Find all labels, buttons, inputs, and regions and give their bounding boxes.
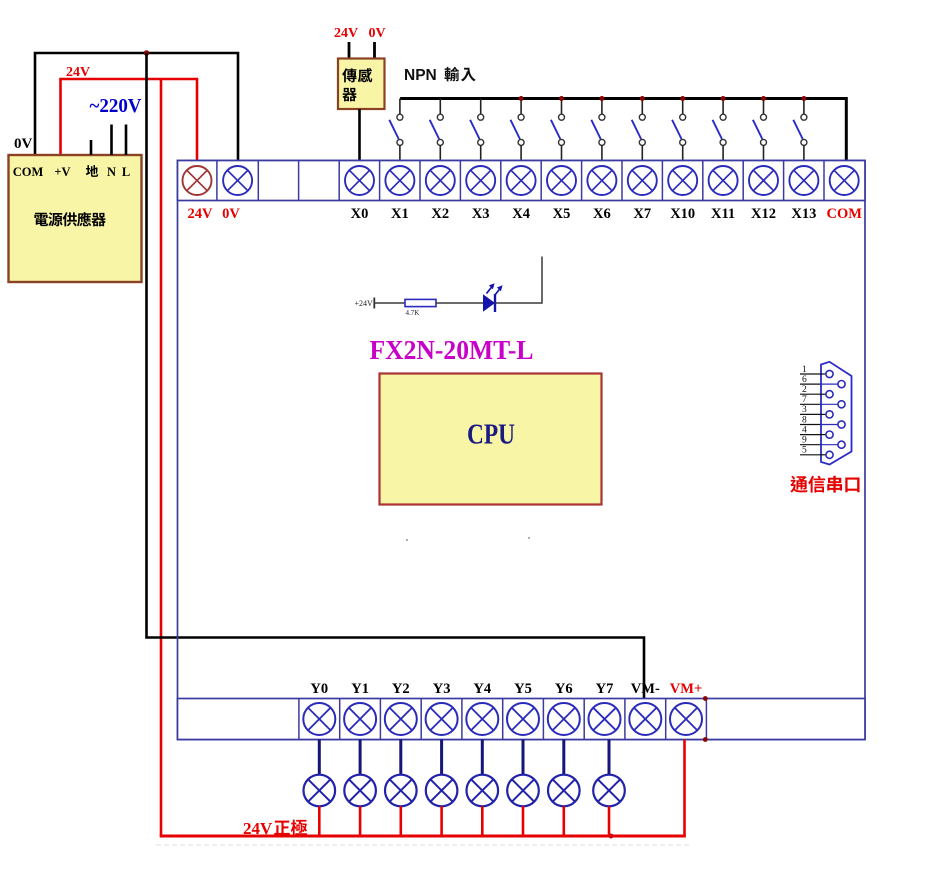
bus wire COM input common line (400, 99, 846, 162)
pin 24V of sensor (348, 42, 351, 59)
svg-text:N: N (107, 165, 116, 179)
svg-text:Y1: Y1 (351, 681, 369, 697)
junction on bus above X11 (721, 96, 726, 101)
load lamp on output Y2 (385, 740, 417, 838)
svg-text:X12: X12 (751, 206, 776, 222)
terminal VM- (629, 703, 661, 735)
output terminal block cell dividers (299, 699, 707, 740)
wire VM+ to 24V rail (683, 740, 686, 838)
terminal X6 (587, 166, 616, 195)
svg-text:~220V: ~220V (90, 95, 143, 117)
output terminal block frame (178, 699, 866, 740)
load lamp on output Y3 (426, 740, 458, 838)
junction on bus above X13 (801, 96, 806, 101)
terminal Y3 (426, 703, 458, 735)
faint scan artifact line below rail (156, 844, 692, 846)
resistor 4.7K (405, 299, 436, 306)
svg-text:X11: X11 (711, 206, 735, 222)
switch input X3 (470, 99, 484, 162)
terminal Y0 (303, 703, 335, 735)
svg-text:24V: 24V (66, 65, 90, 80)
label 器 line2 of sensor (342, 88, 356, 101)
pin N of power supply (110, 125, 113, 156)
power supply box (9, 155, 142, 282)
junction on bus above X5 (559, 96, 564, 101)
terminal X5 (547, 166, 576, 195)
svg-text:Y7: Y7 (596, 681, 614, 697)
svg-text:0V: 0V (222, 206, 240, 222)
svg-text:0V: 0V (14, 136, 33, 152)
switch input X1 (389, 99, 403, 162)
terminal COM (830, 166, 859, 195)
terminal Y7 (589, 703, 621, 735)
switch input X6 (591, 99, 605, 162)
svg-text:COM: COM (13, 165, 44, 179)
terminal 0V (223, 166, 252, 195)
svg-text:NPN: NPN (404, 67, 437, 84)
svg-text:8: 8 (802, 415, 807, 425)
terminal X10 (668, 166, 697, 195)
terminal Y2 (385, 703, 417, 735)
svg-text:+24V: +24V (355, 299, 374, 308)
svg-text:X6: X6 (593, 206, 611, 222)
CPU box (380, 374, 602, 505)
svg-text:1: 1 (802, 365, 807, 375)
speck left below CPU (406, 539, 408, 541)
DB9 pin 7 (800, 395, 845, 408)
svg-text:FX2N-20MT-L: FX2N-20MT-L (370, 335, 534, 365)
svg-text:X4: X4 (512, 206, 530, 222)
DB9 pin 6 (800, 375, 845, 388)
load lamp on output Y4 (467, 740, 499, 838)
junction on bus above X7 (640, 96, 645, 101)
terminal X11 (709, 166, 738, 195)
switch input X10 (672, 99, 686, 162)
wire resistor to LED (436, 302, 483, 304)
terminal X3 (466, 166, 495, 195)
svg-text:9: 9 (802, 436, 807, 446)
terminal VM+ (670, 703, 702, 735)
svg-text:L: L (122, 165, 130, 179)
junction on bus above X12 (761, 96, 766, 101)
DB9 pin 2 (800, 385, 833, 398)
svg-text:COM: COM (826, 206, 862, 222)
svg-text:X1: X1 (391, 206, 409, 222)
load lamp on output Y1 (344, 740, 376, 838)
svg-text:24V: 24V (243, 819, 273, 838)
svg-text:Y6: Y6 (555, 681, 573, 697)
speck right below CPU (528, 537, 530, 539)
terminal X0 (345, 166, 374, 195)
svg-text:VM-: VM- (631, 681, 660, 697)
svg-text:X13: X13 (791, 206, 816, 222)
terminal Y5 (507, 703, 539, 735)
wire 24V red branch down left side to bottom rail (160, 79, 163, 837)
sensor box (338, 59, 385, 110)
load lamp on output Y7 (593, 740, 625, 838)
svg-text:5: 5 (802, 446, 807, 456)
switch input X12 (753, 99, 767, 162)
junction on bus above X10 (680, 96, 685, 101)
DB9 pin 1 (800, 365, 833, 378)
switch input X7 (632, 99, 646, 162)
svg-text:Y0: Y0 (310, 681, 328, 697)
input terminal block cell dividers (217, 161, 824, 201)
switch input X4 (511, 99, 525, 162)
svg-text:Y3: Y3 (433, 681, 451, 697)
switch input X2 (430, 99, 444, 162)
junction on 24V rail at Y7 load (609, 834, 614, 839)
label 電源供應器 power supply name (34, 213, 48, 226)
terminal X4 (507, 166, 536, 195)
junction on bus above X6 (599, 96, 604, 101)
label 通信串口 serial port (790, 476, 807, 493)
svg-text:6: 6 (802, 375, 807, 385)
terminal 24V (183, 166, 212, 195)
terminal X13 (789, 166, 818, 195)
svg-text:X0: X0 (351, 206, 369, 222)
pin 地 of power supply (90, 140, 93, 155)
terminal X12 (749, 166, 778, 195)
svg-text:X3: X3 (472, 206, 490, 222)
wire 24V red from power supply +V to 24V terminal (61, 79, 198, 167)
DB9 pin 5 (800, 446, 833, 459)
switch input X11 (713, 99, 727, 162)
junction dot bottom right of VM+ cell (703, 737, 708, 742)
wire sensor output to X0 terminal (358, 109, 361, 161)
svg-text:X10: X10 (670, 206, 695, 222)
svg-text:2: 2 (802, 385, 807, 395)
svg-text:Y2: Y2 (392, 681, 410, 697)
LED D1 (483, 283, 503, 312)
DB9 pin 3 (800, 405, 833, 418)
svg-text:24V: 24V (188, 206, 214, 222)
junction node on 0V wire (144, 50, 150, 56)
terminal X7 (628, 166, 657, 195)
junction on bus above X4 (519, 96, 524, 101)
load lamp on output Y6 (548, 740, 580, 838)
node +24V tick (373, 298, 375, 309)
DB9 connector shell (821, 362, 852, 465)
svg-text:Y5: Y5 (514, 681, 532, 697)
PLC body outline FX2N (178, 161, 866, 740)
svg-text:0V: 0V (368, 26, 385, 41)
wire LED up to input circuit (495, 257, 542, 304)
svg-text:X5: X5 (553, 206, 571, 222)
DB9 pin 4 (800, 425, 833, 438)
pin L of power supply (125, 125, 128, 156)
svg-text:24V: 24V (334, 26, 358, 41)
switch input X5 (551, 99, 565, 162)
terminal Y1 (344, 703, 376, 735)
terminal Y6 (548, 703, 580, 735)
svg-text:4.7K: 4.7K (406, 309, 420, 317)
wire 0V from power supply COM up and across to 0V terminal (35, 53, 238, 167)
svg-text:+V: +V (54, 165, 70, 179)
junction dot top right of VM+ cell (703, 696, 708, 701)
svg-text:VM+: VM+ (670, 681, 702, 697)
svg-text:4: 4 (802, 425, 807, 435)
svg-text:CPU: CPU (467, 419, 515, 451)
terminal X1 (385, 166, 414, 195)
svg-text:7: 7 (802, 395, 807, 405)
terminal Y4 (466, 703, 498, 735)
svg-text:X2: X2 (431, 206, 449, 222)
pin 0V of sensor (373, 42, 376, 59)
label 地 on power supply (86, 165, 98, 177)
wire 24V positive rail (160, 835, 686, 838)
load lamp on output Y5 (507, 740, 539, 838)
DB9 pin 9 (800, 436, 845, 449)
input terminal block frame (178, 161, 866, 201)
load lamp on output Y0 (304, 740, 336, 838)
switch input X13 (793, 99, 807, 162)
wire black from junction down to VM- terminal (147, 53, 645, 700)
label 傳感 line1 of sensor (342, 68, 357, 82)
wire +24V to resistor (374, 302, 405, 304)
svg-text:X7: X7 (633, 206, 651, 222)
svg-text:Y4: Y4 (473, 681, 491, 697)
DB9 pin 8 (800, 415, 845, 428)
svg-text:3: 3 (802, 405, 807, 415)
terminal X2 (426, 166, 455, 195)
